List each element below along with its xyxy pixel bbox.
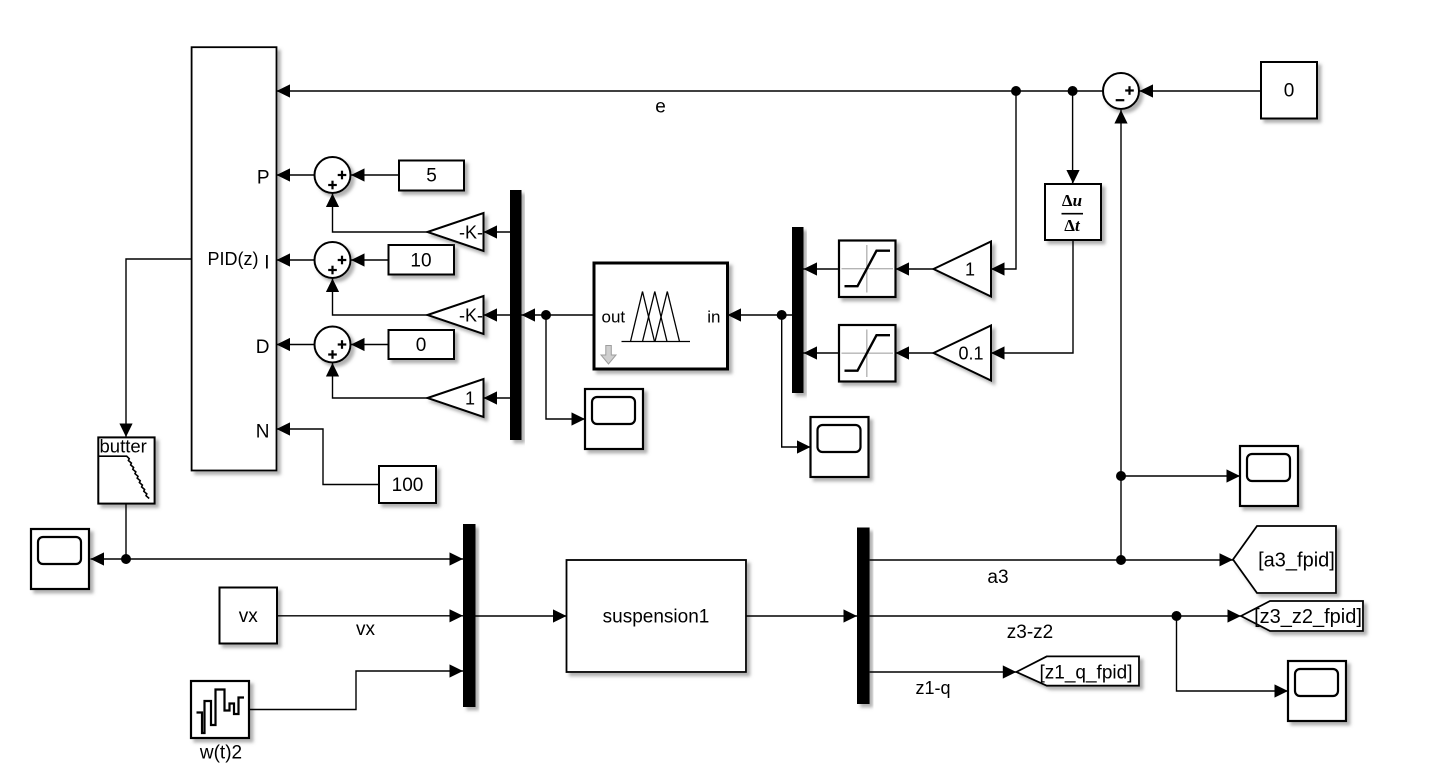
wire Saturation2 to Mux1 (804, 352, 840, 354)
svg-text:[z1_q_fpid]: [z1_q_fpid] (1040, 663, 1133, 684)
constant vx (220, 588, 278, 644)
svg-text:out: out (602, 308, 626, 327)
wire suspension1 to Demux2 (746, 615, 857, 617)
junction a3 line (1116, 555, 1126, 565)
svg-text:P: P (257, 168, 270, 189)
constant 0 (D) (389, 330, 455, 359)
svg-text:0: 0 (1284, 81, 1295, 102)
svg-text:0.1: 0.1 (958, 343, 983, 363)
butter response icon (99, 456, 149, 498)
wire Demux2 out2 z3-z2 to tag (870, 615, 1241, 617)
band-limited white noise block w(t)2 (191, 681, 249, 738)
junction fuzzy in tap (777, 310, 787, 320)
wire Demux1 out2 to gain -K- (I) (484, 314, 511, 316)
constant 5 (399, 161, 464, 191)
sum S4 (error) (1103, 73, 1139, 109)
demux Demux2 (plant out) (857, 528, 870, 705)
wire to Scope5 (91, 558, 127, 560)
wire control signal to Mux2 in1 (126, 558, 463, 560)
svg-text:10: 10 (410, 251, 431, 272)
wire gain 1 to Saturation1 (896, 268, 934, 270)
PID controller PID(z) (192, 47, 277, 470)
constant 10 (389, 245, 455, 275)
fuzzy logic controller block (594, 263, 728, 369)
svg-text:0: 0 (416, 335, 427, 356)
w(t)2 noise icon (197, 690, 245, 734)
sum S3 (D row) (315, 327, 351, 363)
wire e to gain 1 (991, 91, 1016, 269)
svg-text:e: e (655, 97, 666, 118)
svg-text:-K-: -K- (459, 305, 483, 325)
wire Demux2 out1 a3 to tag (870, 559, 1233, 561)
wire Saturation1 to Mux1 (804, 268, 840, 270)
goto tag [z3_z2_fpid] (1241, 601, 1363, 631)
wire w(t)2 to Mux2 in3 (249, 671, 463, 710)
wire vx to Mux2 in2 (277, 615, 463, 617)
svg-text:PID(z): PID(z) (208, 249, 259, 269)
gain 1 (e path) (934, 242, 992, 297)
wire gain -K- I to sum S2 (333, 279, 428, 316)
gain 1 (D) (428, 379, 484, 417)
saturation Saturation2 (839, 325, 896, 382)
svg-text:100: 100 (392, 475, 424, 496)
svg-text:[a3_fpid]: [a3_fpid] (1258, 550, 1335, 572)
wire Demux1 out1 to gain -K- (P) (484, 231, 511, 233)
wire gain 1 D to sum S3 (333, 363, 428, 398)
scope Scope1 (585, 389, 643, 449)
scope Scope4 (1288, 661, 1346, 721)
junction fuzzy out tap (541, 310, 551, 320)
saturation Saturation2 icon (842, 330, 894, 378)
wire fuzzy out tap to Scope1 (546, 315, 585, 419)
junction z3-z2 to Scope4 (1172, 611, 1182, 621)
wire fuzzy out to Demux1 (522, 314, 595, 316)
mux Mux2 (plant in) (463, 524, 476, 707)
scope Scope5 (mirrored) (31, 529, 89, 589)
wire sum S1 to PID P (277, 174, 315, 176)
wire sum S3 to PID D (277, 344, 315, 346)
svg-text:butter: butter (100, 436, 147, 457)
subsystem suspension1 (567, 560, 747, 672)
junction e to gain 1 (1011, 86, 1021, 96)
goto tag [a3_fpid] (1233, 526, 1336, 593)
wire e (sum S4 to PID) (277, 90, 1103, 92)
sum S2 (I row) (315, 242, 351, 278)
junction e to du/dt (1068, 86, 1078, 96)
demux Demux1 (510, 190, 522, 440)
wire sum S2 to PID I (277, 259, 315, 261)
wire constant 10 to sum S2 (351, 259, 389, 261)
svg-text:5: 5 (426, 166, 437, 187)
gain -K- (P) (428, 213, 484, 251)
wire Mux2 to suspension1 (476, 615, 567, 617)
wire z3-z2 tap to Scope4 (1177, 616, 1289, 691)
saturation Saturation1 icon (842, 245, 894, 293)
wire Demux1 out3 to gain 1 (D) (484, 397, 511, 399)
svg-text:Δu: Δu (1062, 191, 1082, 210)
wire du/dt to gain 0.1 (991, 240, 1073, 353)
wire e to du/dt (1072, 91, 1074, 184)
wire gain 0.1 to Saturation2 (896, 352, 934, 354)
svg-text:in: in (707, 308, 720, 327)
gain -K- (I) (428, 296, 484, 334)
wire PID out to butter (126, 259, 192, 437)
wire constant 5 to sum S1 (351, 174, 399, 176)
scope Scope3 (1240, 446, 1298, 506)
svg-text:1: 1 (965, 259, 975, 279)
gain 0.1 (de path) (934, 326, 992, 381)
svg-text:vx: vx (356, 619, 376, 640)
svg-text:I: I (264, 253, 269, 274)
wire Demux2 out3 z1-q to tag (870, 671, 1017, 673)
goto tag [z1_q_fpid] (1016, 656, 1139, 685)
wire const 0 to sum S4 (1140, 90, 1262, 92)
sum S1 (P row) (315, 157, 351, 193)
wire gain -K- P to sum S1 (333, 194, 428, 233)
scope Scope2 (811, 417, 869, 477)
wire a3 tap to Scope3 (1121, 475, 1240, 477)
wire constant 0 to sum S3 (351, 344, 389, 346)
wire fuzzy in tap to Scope2 (782, 315, 811, 447)
svg-text:suspension1: suspension1 (603, 607, 710, 628)
svg-text:-K-: -K- (459, 222, 483, 242)
svg-text:1: 1 (465, 388, 475, 408)
constant 0 (reference) (1261, 62, 1317, 119)
mux Mux1 (792, 227, 804, 393)
analog filter design block butter (98, 437, 154, 503)
svg-text:z3-z2: z3-z2 (1007, 622, 1053, 643)
svg-text:D: D (256, 337, 270, 358)
wire butter out down (125, 504, 127, 559)
svg-text:vx: vx (239, 606, 259, 627)
difference block du/dt (1045, 184, 1101, 240)
wire Mux1 to fuzzy in (728, 314, 793, 316)
svg-text:z1-q: z1-q (915, 678, 950, 698)
fuzzy link arrow (gray) (601, 346, 616, 365)
svg-text:a3: a3 (987, 567, 1008, 588)
saturation Saturation1 (839, 241, 896, 298)
wire a3 feedback to sum S4 (1120, 110, 1122, 560)
junction a3 to scope3 (1116, 471, 1126, 481)
junction butter out (121, 554, 131, 564)
wire constant 100 to PID N (277, 429, 380, 485)
constant 100 (379, 466, 436, 503)
svg-text:N: N (256, 422, 270, 443)
svg-text:[z3_z2_fpid]: [z3_z2_fpid] (1254, 606, 1362, 628)
fuzzy membership triangles icon (622, 292, 691, 342)
svg-text:w(t)2: w(t)2 (199, 743, 242, 764)
svg-text:Δt: Δt (1064, 216, 1081, 235)
